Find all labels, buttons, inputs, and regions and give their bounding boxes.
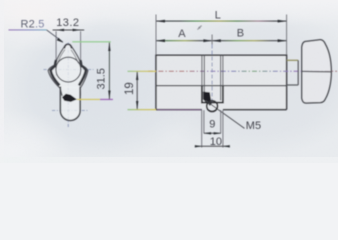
profile outline tails into cam — [60, 88, 62, 96]
leader R2.5 diagonal — [47, 30, 63, 42]
break squiggle on dim line — [197, 26, 201, 30]
dim 19 arrows — [136, 72, 138, 81]
dim A/B line — [156, 40, 287, 42]
neck top — [287, 59, 299, 61]
leader R2.5 arrowhead — [57, 38, 64, 43]
dim B arrows — [212, 39, 221, 42]
M5 leader arrowhead — [205, 100, 212, 106]
cam channel centerline dashed — [211, 45, 213, 104]
body interior fill — [157, 56, 286, 109]
knob interior fill — [302, 40, 332, 103]
neck end face — [297, 60, 299, 85]
knob outline — [302, 40, 332, 103]
cam channel verticals — [201, 55, 203, 86]
cam notch thick U — [202, 86, 223, 103]
profile pear outline — [48, 44, 88, 88]
body rectangle — [156, 55, 287, 109]
extension line yellow (31.5 bottom) — [77, 98, 100, 100]
cam black section (right view) — [203, 92, 211, 104]
dim 19 extension line top (yellow) — [128, 70, 157, 72]
dim 9 line with arrows — [204, 132, 221, 134]
centerline horizontal (left view) — [44, 69, 94, 71]
leader R2.5 underline — [9, 29, 47, 31]
screw circle M5 — [207, 101, 218, 112]
profile inner wall upper-left — [58, 50, 65, 63]
dim L arrows — [156, 20, 165, 23]
dim 19 vertical line — [136, 72, 138, 109]
dim 13.2 line — [53, 29, 85, 31]
neck bottom — [287, 84, 299, 86]
dim 13.2 arrows — [56, 29, 64, 31]
extension line middle (x=212) — [211, 35, 213, 45]
knob mid line — [302, 70, 332, 73]
body mid line — [156, 85, 287, 87]
dim 31.5 arrows — [108, 42, 110, 51]
extension line purple (31.5 bottom) — [100, 98, 113, 100]
profile inner thick wall left — [51, 60, 60, 85]
plug circle dia 13.2 — [56, 57, 81, 82]
dim 10 line with inward arrows — [196, 145, 229, 147]
body bottom magenta tint — [157, 109, 201, 111]
dim A arrows — [156, 39, 165, 42]
M5 leader line — [206, 101, 245, 129]
extension line right (x=286.6) — [286, 15, 288, 56]
paper background — [0, 0, 338, 163]
profile top small arc R2.5 — [64, 44, 71, 48]
dim 31.5 vertical line — [108, 42, 110, 99]
profile interior fill — [48, 44, 88, 88]
stem U — [60, 87, 80, 121]
centerline vertical (left view) — [67, 43, 69, 128]
dim 19 extension line bottom (yellow) — [128, 109, 157, 111]
dim 13.2 extension lines — [55, 31, 57, 76]
axis centerline (right view) — [148, 70, 337, 72]
extension line green (31.5 top) — [72, 41, 111, 43]
extension line left (x=156) — [155, 15, 157, 56]
profile inner thick wall right — [79, 60, 86, 85]
dim L line — [156, 20, 287, 22]
scan grain — [0, 0, 1, 1]
cam section black (left view) — [62, 94, 77, 102]
centerline horizontal stem arc (left view) — [52, 109, 89, 111]
extension lines below body for 9/10 — [201, 110, 203, 147]
profile inner wall upper-right — [71, 50, 78, 64]
